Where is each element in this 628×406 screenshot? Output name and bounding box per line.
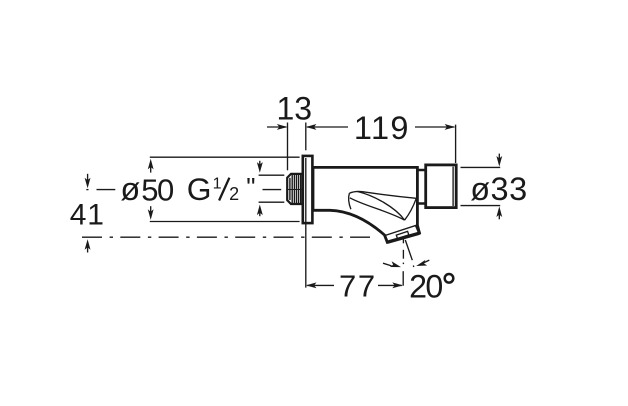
push button	[426, 165, 457, 208]
dimension 33: extension lines	[461, 166, 501, 168]
svg-text:20: 20	[409, 269, 442, 305]
extension line 119 right	[455, 125, 457, 163]
svg-text:ø: ø	[120, 171, 140, 207]
dimension 50: extension lines	[150, 156, 300, 158]
fin crease	[358, 192, 405, 221]
faucet body (bold outline with spout)	[313, 167, 420, 242]
extension line through flange (13 right / 77 left)	[305, 123, 307, 151]
svg-text:41: 41	[70, 199, 105, 232]
angle arrows	[383, 263, 392, 266]
svg-text:13: 13	[277, 90, 313, 126]
spout nozzle band (aerator housing)	[385, 225, 416, 235]
wall thread G1/2 (hatched)	[287, 174, 303, 204]
wall flange	[303, 156, 313, 223]
svg-text:": "	[246, 172, 255, 202]
dimension 50 arrows	[148, 159, 154, 170]
centerline across thread	[288, 189, 303, 191]
aerator window (small tilted rectangle)	[396, 231, 409, 238]
dimension 119: line and arrows	[307, 126, 348, 128]
lower reference centerline (dash-dot)	[82, 236, 370, 238]
svg-text:2: 2	[229, 184, 239, 204]
svg-text:G: G	[187, 171, 212, 207]
svg-text:50: 50	[141, 172, 174, 207]
svg-text:119: 119	[354, 110, 410, 146]
angle tilted leg (20 deg)	[405, 240, 412, 260]
dimension 13: line and arrow	[267, 126, 286, 128]
angle vertical leg (dash-dot)	[402, 239, 404, 243]
G1/2 leader lines	[259, 174, 285, 176]
extension line 13 left	[287, 123, 289, 171]
G1/2 arrows (outside, pointing inward)	[257, 162, 263, 173]
fraction slash	[219, 178, 229, 201]
dimension 33 arrows (outside)	[496, 156, 502, 167]
dimension 41 arrows	[85, 178, 91, 189]
svg-text:1: 1	[213, 175, 222, 192]
svg-text:ø33: ø33	[470, 171, 528, 207]
spout fin (interior thin curves)	[349, 191, 416, 198]
push button inner edge line	[452, 167, 454, 206]
svg-text:77: 77	[339, 269, 377, 304]
faucet axis centerline (dash-dot segments)	[86, 189, 345, 191]
neck between body and push button	[417, 170, 425, 204]
thread hatch lines	[290, 175, 301, 203]
dimension 77: line and arrows	[307, 284, 334, 286]
degree ring	[445, 274, 454, 283]
